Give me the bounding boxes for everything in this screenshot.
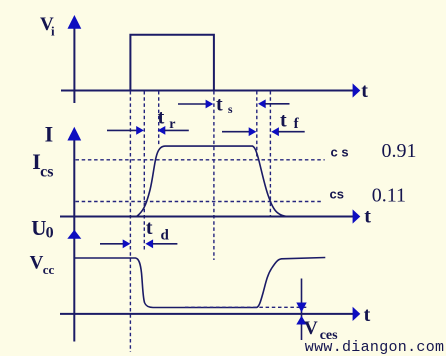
dashed vertical at pulse fall x=214 bbox=[213, 91, 215, 260]
dashed 0.9 Ics level bbox=[76, 159, 325, 161]
Vi t-axis bbox=[61, 83, 360, 97]
svg-text:t: t bbox=[364, 205, 371, 227]
U0 output voltage waveform bbox=[75, 258, 326, 308]
I vertical axis (shared with U0) bbox=[67, 127, 81, 342]
svg-text:cs: cs bbox=[40, 164, 53, 181]
svg-text:U: U bbox=[31, 216, 46, 240]
svg-text:t: t bbox=[361, 80, 368, 102]
svg-text:i: i bbox=[51, 24, 55, 39]
tr annotation right arrow bbox=[158, 126, 189, 135]
svg-text:c s: c s bbox=[331, 145, 349, 160]
Vces down arrowhead bbox=[296, 303, 306, 313]
dashed vertical x=144 (0.1 Ics crossing) bbox=[143, 91, 145, 252]
svg-text:d: d bbox=[161, 227, 170, 243]
svg-text:cc: cc bbox=[43, 262, 55, 277]
ts annotation left arrow bbox=[178, 100, 213, 109]
svg-text:t: t bbox=[158, 107, 165, 129]
dashed vertical x=158.7 (0.9 Ics crossing) bbox=[158, 91, 160, 146]
dashed Vces level bbox=[185, 306, 309, 308]
svg-text:t: t bbox=[280, 110, 287, 132]
U0 axis up arrowhead bbox=[67, 230, 81, 239]
svg-text:www.diangon.com: www.diangon.com bbox=[305, 339, 445, 356]
svg-text:0.91: 0.91 bbox=[382, 140, 417, 162]
svg-text:0: 0 bbox=[46, 225, 54, 242]
ts annotation right arrow bbox=[258, 99, 290, 108]
tr annotation left arrow bbox=[107, 126, 144, 135]
U0 t-axis bbox=[60, 307, 360, 321]
Vi input pulse waveform bbox=[130, 35, 214, 91]
dashed vertical at pulse rise x=130 bbox=[129, 91, 131, 352]
svg-text:t: t bbox=[364, 304, 371, 326]
svg-text:0.11: 0.11 bbox=[372, 185, 406, 207]
svg-text:r: r bbox=[169, 117, 175, 132]
svg-text:t: t bbox=[146, 217, 153, 239]
Vces up arrowhead bbox=[296, 316, 306, 325]
tf annotation right arrow bbox=[271, 127, 305, 136]
tf annotation left arrow bbox=[222, 127, 256, 136]
td annotation left arrow bbox=[100, 239, 130, 248]
I collector current waveform bbox=[136, 146, 286, 217]
svg-text:I: I bbox=[45, 121, 54, 146]
svg-text:V: V bbox=[304, 318, 318, 339]
Vces vertical marker line bbox=[301, 279, 303, 341]
svg-text:t: t bbox=[216, 93, 223, 115]
td annotation right arrow bbox=[145, 239, 177, 248]
dashed 0.1 Ics level bbox=[76, 201, 323, 203]
Vi vertical axis bbox=[68, 15, 82, 103]
svg-text:cs: cs bbox=[330, 186, 344, 201]
dashed vertical x=256.8 (fall start) bbox=[256, 91, 258, 160]
svg-text:s: s bbox=[228, 102, 233, 116]
dashed vertical x=270.4 (fall 0.1 crossing) bbox=[269, 91, 271, 216]
svg-text:V: V bbox=[30, 253, 44, 274]
I t-axis bbox=[60, 209, 360, 223]
